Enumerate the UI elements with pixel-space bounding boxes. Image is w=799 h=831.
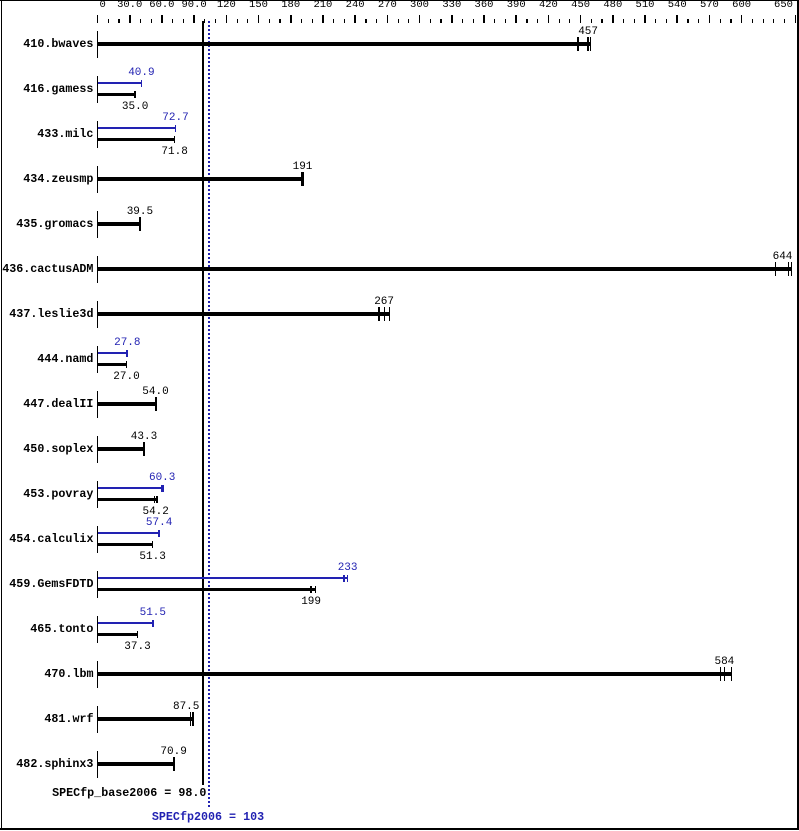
- row 435.gromacs: [16, 218, 93, 231]
- row 450.soplex: [23, 443, 93, 456]
- row 453.povray: [23, 488, 93, 501]
- axis ruler: [97, 15, 99, 23]
- peak mean line (dotted): [208, 21, 210, 23]
- SPECfp2006 = 103: [152, 811, 264, 824]
- row 433.milc: [37, 128, 93, 141]
- row 481.wrf: [44, 713, 93, 726]
- row 437.leslie3d: [9, 308, 93, 321]
- base mean line: [202, 21, 204, 785]
- row 454.calculix: [9, 533, 93, 546]
- row 447.dealII: [23, 398, 93, 411]
- row 444.namd: [37, 353, 93, 366]
- row 470.lbm: [44, 668, 93, 681]
- SPECfp_base2006 = 98.0: [52, 787, 206, 800]
- row 482.sphinx3: [16, 758, 93, 771]
- row 434.zeusmp: [23, 173, 93, 186]
- row 465.tonto: [30, 623, 93, 636]
- row 410.bwaves: [23, 38, 93, 51]
- row 416.gamess: [23, 83, 93, 96]
- row 459.GemsFDTD: [9, 578, 93, 591]
- frame: [0, 0, 799, 1]
- row 436.cactusADM: [2, 263, 93, 276]
